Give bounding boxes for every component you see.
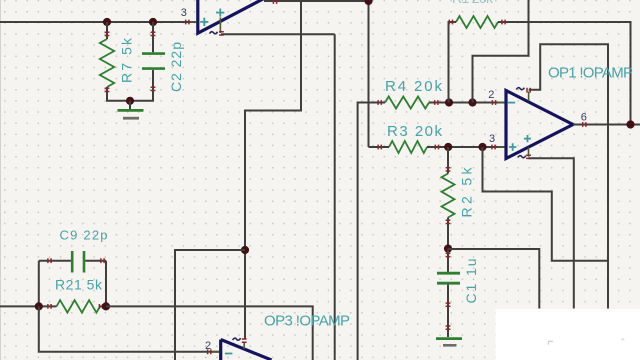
svg-text:2: 2 xyxy=(488,89,494,101)
pin end cross C1 top xyxy=(446,253,451,256)
pin end cross R2 bottom xyxy=(446,220,451,223)
capacitor C9 horizontal xyxy=(72,251,84,273)
tiny pin4 label smudge OP1 xyxy=(518,156,526,158)
wire C9-R21 left link xyxy=(38,261,40,307)
wire R2 top lead xyxy=(447,147,449,174)
wire R1 right lead feedback to output xyxy=(498,22,631,125)
capacitor C1 vertical xyxy=(437,273,460,283)
pin end cross R1 left xyxy=(449,20,452,25)
pin end cross R4 left xyxy=(378,100,381,105)
pin stub OP1 pin2 xyxy=(498,102,505,104)
svg-text:3: 3 xyxy=(181,7,187,19)
power stub OP1 bottom xyxy=(528,148,530,157)
faint mark in overlay xyxy=(549,341,554,344)
junction R4 upper loop xyxy=(468,98,476,106)
wire OP1 pin4 down xyxy=(529,158,574,308)
pin end cross R3 left xyxy=(378,145,381,150)
pin end cross R21 right xyxy=(99,304,102,309)
resistor R4 horizontal xyxy=(385,97,429,109)
pin end cross OP1 pin2 xyxy=(492,100,495,105)
wire OP1 pin3 path around bottom xyxy=(483,147,609,261)
ground symbol GND1 xyxy=(129,101,131,109)
wire from top edge down-left to OP3 power xyxy=(245,0,301,339)
pin stub OP1 pin3 xyxy=(498,146,505,148)
junction output node xyxy=(626,120,634,128)
wire C2 bottom lead xyxy=(130,70,153,101)
power stub OP2 xyxy=(219,18,221,34)
wire OP1 pin7 loop to right rail xyxy=(529,44,608,308)
wire R21 right lead xyxy=(100,305,106,307)
svg-text:C1 1u: C1 1u xyxy=(463,259,479,304)
wire C2 top lead xyxy=(152,22,154,52)
plus marker OP2 power pin xyxy=(216,9,224,17)
pin end cross OP3 power xyxy=(242,339,247,342)
tiny pin4 label smudge OP2 xyxy=(210,32,218,34)
wire R3 left lead xyxy=(369,146,390,148)
wire OP1 output pin6 xyxy=(573,124,640,126)
op-amp OP3 triangle (partially visible bottom) xyxy=(221,340,272,360)
junction R3/pin3 path xyxy=(478,143,486,151)
svg-text:R4 20k: R4 20k xyxy=(385,78,443,95)
wire vertical rail x=334.7 to bottom xyxy=(334,34,336,360)
wire OP2 pin3 input from left edge xyxy=(0,21,197,23)
svg-text:R2 5k: R2 5k xyxy=(459,167,475,218)
pin end cross C9 right xyxy=(101,258,104,263)
wire R4 left lead and rail down xyxy=(358,103,385,360)
pin end cross OP2 pin3 xyxy=(186,20,189,25)
resistor R21 horizontal xyxy=(57,300,101,312)
pin end cross C2 top xyxy=(151,32,156,35)
wire R1 left lead down to R4 node xyxy=(449,22,457,103)
wire C9 right lead xyxy=(85,260,106,262)
svg-text:C2 22p: C2 22p xyxy=(168,42,184,92)
wire R2 bottom lead xyxy=(447,218,449,249)
svg-text:OP3 !OPAMP: OP3 !OPAMP xyxy=(264,313,350,330)
pin end cross C2 bottom xyxy=(151,87,156,90)
wire net from OP2 output along top edge xyxy=(264,0,369,2)
svg-text:OP1 !OPAMP: OP1 !OPAMP xyxy=(548,65,633,82)
op-amp OP1 triangle xyxy=(506,91,573,159)
faint dash in overlay xyxy=(621,338,624,340)
pin end cross R7 top xyxy=(105,32,110,35)
tiny power label smudge OP3 xyxy=(233,338,241,340)
pin end cross R2 top xyxy=(446,168,451,171)
resistor R7 vertical xyxy=(100,39,114,87)
tiny pin7 label smudge OP1 xyxy=(516,88,524,90)
junction R3/R2 xyxy=(444,143,452,151)
pin end cross R7 bottom xyxy=(105,88,110,91)
wire R21 output to OP3 pin3 rail xyxy=(106,306,313,360)
pin end cross R21 left xyxy=(48,304,51,309)
svg-text:R3 20k: R3 20k xyxy=(387,123,443,140)
wire C1 top lead xyxy=(447,249,449,272)
node A junction on top edge xyxy=(364,0,372,5)
wire C9-R21 right link xyxy=(105,261,107,307)
resistor R3 horizontal xyxy=(389,141,427,153)
svg-text:3: 3 xyxy=(489,133,495,145)
junction on OP3 power rail xyxy=(241,246,249,254)
pin end cross OP3 pin2 xyxy=(208,349,211,354)
svg-text:R7 5k: R7 5k xyxy=(119,37,135,83)
plus marker OP1 power xyxy=(524,135,531,142)
junction R21 right xyxy=(102,302,110,310)
pin end cross OP1 pin6 xyxy=(583,122,586,127)
pin stub OP1 pin6 xyxy=(575,124,583,126)
wire OP2 power pin to vertical rail xyxy=(221,33,335,35)
pin end cross R4 right xyxy=(435,100,438,105)
pin stub OP2 pin3 xyxy=(190,21,197,23)
pin end cross OP1 pin3 xyxy=(492,145,495,150)
svg-text:6: 6 xyxy=(581,112,587,124)
pin end cross OP1 pin7 xyxy=(527,88,530,93)
minus marker OP1 pin2 xyxy=(508,102,515,104)
power stub OP1 top xyxy=(528,92,530,102)
op-amp OP2 triangle (partially off-screen top) xyxy=(198,0,264,33)
plus marker OP1 pin3 xyxy=(509,143,517,151)
pin end cross OP1 pin4 xyxy=(526,155,531,158)
white overlay window bottom-right xyxy=(496,309,640,360)
pin end cross C9 left xyxy=(48,258,51,263)
svg-text:R21 5k: R21 5k xyxy=(55,277,103,293)
capacitor C2 vertical xyxy=(142,54,165,69)
plus marker OP2 pin3 xyxy=(200,18,208,26)
junction R21 left xyxy=(35,302,43,310)
junction ground node below R7/C2 xyxy=(126,97,134,105)
pin end cross OP2 pin6 xyxy=(273,0,276,4)
svg-text:C9 22p: C9 22p xyxy=(60,228,108,243)
wire R7 top lead xyxy=(106,22,108,39)
wire R7 bottom lead xyxy=(107,87,130,101)
junction R4 feedback xyxy=(445,98,453,106)
wire C9 left lead xyxy=(39,260,71,262)
pin end cross R1 right xyxy=(502,20,505,25)
pin end cross C1 bottom xyxy=(446,303,451,306)
wire R4 right lead to OP1 pin2 xyxy=(429,102,506,104)
pin stub OP3 pin2 xyxy=(213,351,220,353)
pin end cross R3 right xyxy=(435,145,438,150)
wire vertical from node at top edge down to R3 left xyxy=(368,1,370,147)
junction R7 top xyxy=(103,18,111,26)
ground symbol GND2 xyxy=(447,331,449,337)
wire feedback down then to OP3 pin2 xyxy=(39,306,219,351)
svg-text:R1 20k: R1 20k xyxy=(452,0,494,6)
wire branch left then down to bottom edge xyxy=(175,250,245,360)
minus marker OP3 pin2 xyxy=(225,353,233,355)
wire C1 bottom lead xyxy=(447,285,449,331)
pin end cross GND2 xyxy=(446,326,451,329)
wire R21 row from left edge xyxy=(0,305,57,307)
resistor R1 top (label clipped) xyxy=(456,16,498,28)
wire R3 right lead to OP1 pin3 xyxy=(427,146,506,148)
pin end cross OP2 power xyxy=(219,32,224,35)
junction C2 top xyxy=(149,18,157,26)
wire upper loop into OP1 pin2 xyxy=(473,0,529,103)
resistor R2 vertical xyxy=(442,174,455,218)
power stub OP3 xyxy=(243,343,245,350)
junction R2/C1 node xyxy=(444,245,452,253)
wire from node to right then down (clipped) xyxy=(448,249,539,309)
